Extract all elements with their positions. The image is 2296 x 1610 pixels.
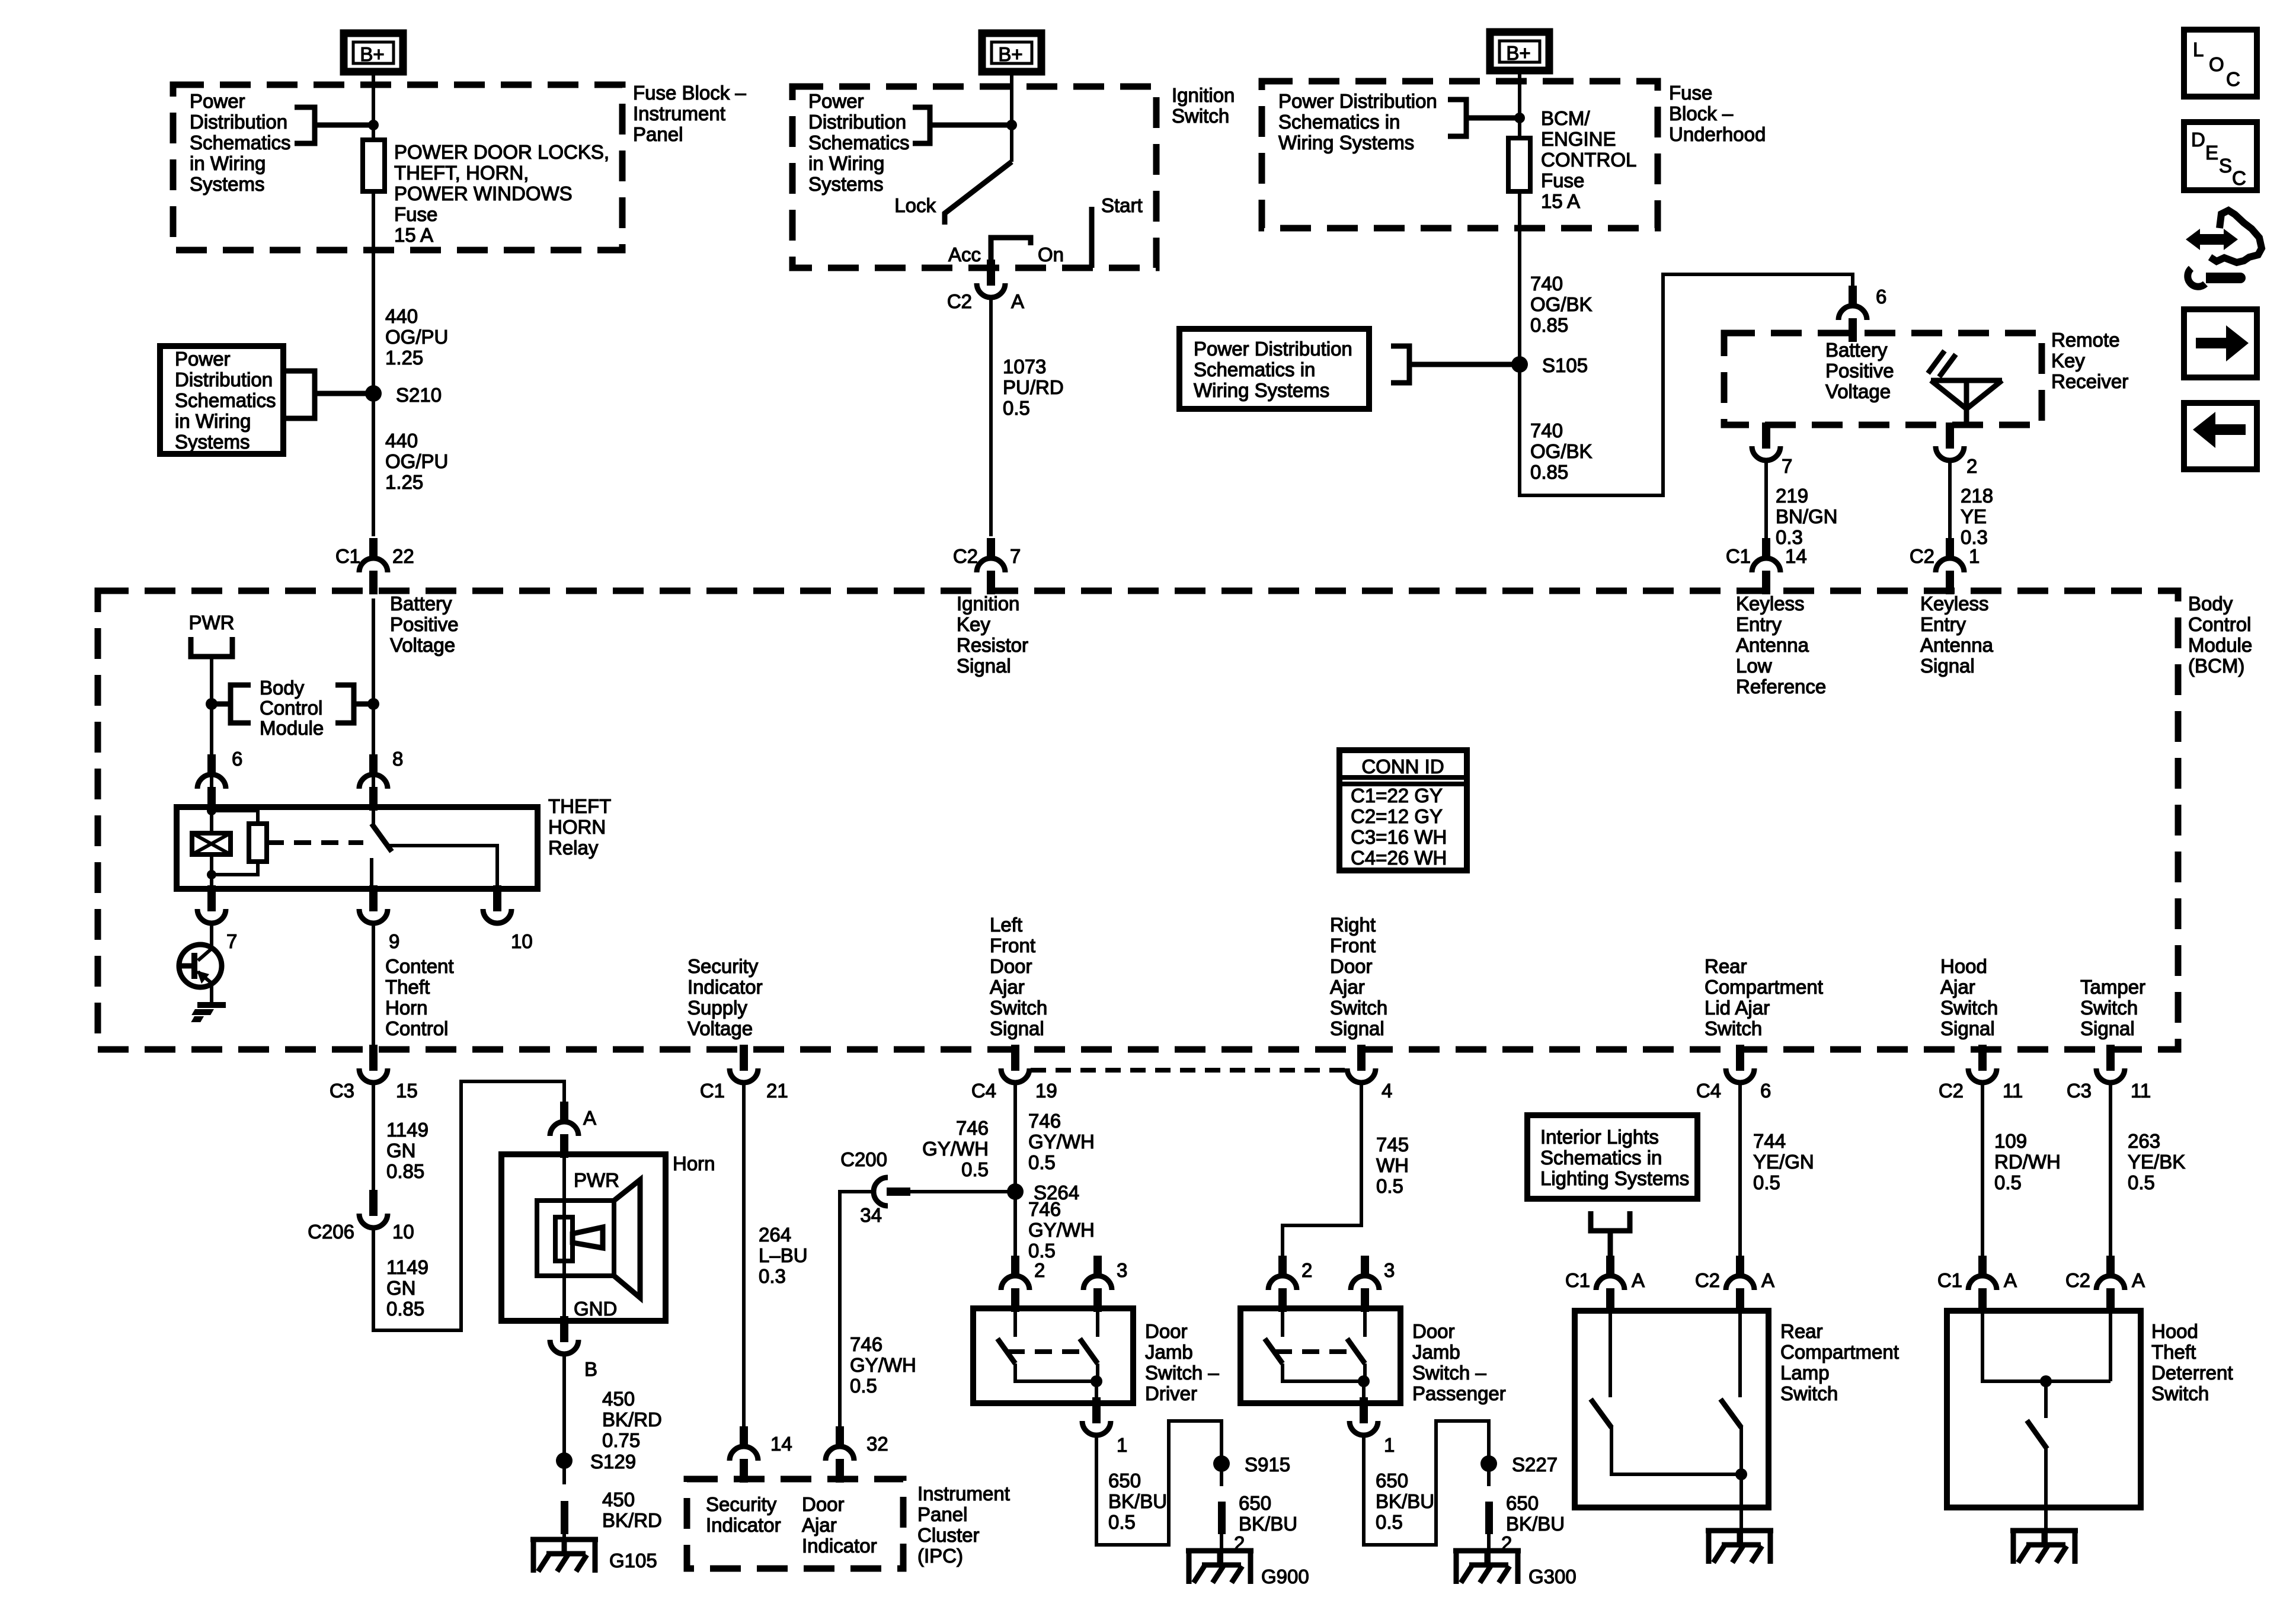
svg-text:GY/WH: GY/WH	[850, 1354, 916, 1376]
svg-text:Jamb: Jamb	[1412, 1341, 1460, 1363]
pin label Rear Compartment Lid Ajar Switch	[1705, 955, 1823, 1039]
svg-text:0.5: 0.5	[1753, 1172, 1780, 1193]
svg-text:Antenna: Antenna	[1736, 634, 1809, 656]
connector door jamb passenger pin 3	[1351, 1256, 1395, 1312]
svg-text:Voltage: Voltage	[390, 634, 455, 656]
bracket to note (S105)	[1391, 346, 1520, 383]
svg-text:Systems: Systems	[808, 173, 884, 195]
svg-text:740: 740	[1530, 420, 1563, 441]
svg-text:Signal: Signal	[2080, 1017, 2135, 1039]
svg-text:1.25: 1.25	[385, 471, 423, 493]
svg-text:Power: Power	[175, 348, 231, 370]
svg-text:Schematics in: Schematics in	[1194, 359, 1315, 380]
svg-text:C3=16 WH: C3=16 WH	[1351, 826, 1447, 848]
svg-text:Positive: Positive	[390, 613, 459, 635]
switch hood theft deterrent box	[1947, 1311, 2141, 1507]
wire relay pin9 to BCM edge	[372, 923, 375, 1049]
wire horn B to S129	[562, 1354, 566, 1461]
svg-text:450: 450	[602, 1388, 635, 1410]
svg-text:Door: Door	[1145, 1320, 1188, 1342]
svg-text:Switch: Switch	[1172, 105, 1229, 127]
node relay coil bottom	[207, 870, 216, 879]
svg-text:(IPC): (IPC)	[917, 1545, 963, 1567]
svg-text:S210: S210	[396, 384, 442, 406]
label Body Control Module (BCM)	[2188, 593, 2252, 677]
svg-text:C3: C3	[330, 1080, 354, 1102]
svg-text:650: 650	[1239, 1492, 1271, 1514]
svg-text:Door: Door	[990, 955, 1032, 977]
svg-text:Key: Key	[2051, 350, 2085, 372]
node S264	[1007, 1182, 1079, 1204]
switch rear compartment lamp box	[1575, 1311, 1769, 1507]
connector door jamb driver pin 3	[1083, 1256, 1127, 1312]
svg-text:219: 219	[1776, 485, 1808, 507]
connector relay pin 8	[359, 748, 403, 811]
svg-text:OG/BK: OG/BK	[1530, 293, 1593, 315]
svg-text:Door: Door	[802, 1493, 845, 1515]
connector relay pin 10	[483, 885, 533, 952]
svg-text:Systems: Systems	[190, 173, 265, 195]
svg-text:6: 6	[1876, 286, 1886, 308]
svg-text:14: 14	[1785, 545, 1807, 567]
svg-text:A: A	[1011, 290, 1024, 312]
wire C4/19 to S264	[1013, 1083, 1017, 1256]
svg-text:G300: G300	[1528, 1566, 1576, 1587]
pin label Right Front Door Ajar Switch Signal	[1330, 914, 1387, 1039]
svg-text:Schematics in: Schematics in	[1278, 111, 1400, 133]
fuse block underhood dashed box	[1262, 81, 1658, 228]
fuse block instrument panel dashed box	[173, 85, 622, 250]
wire label 219 BN/GN 0.3	[1776, 485, 1838, 548]
svg-text:Security: Security	[706, 1493, 777, 1515]
svg-text:Signal: Signal	[1940, 1017, 1995, 1039]
svg-text:0.5: 0.5	[1376, 1511, 1403, 1533]
svg-text:3: 3	[1384, 1259, 1395, 1281]
svg-text:Interior Lights: Interior Lights	[1540, 1126, 1659, 1148]
svg-text:Entry: Entry	[1920, 613, 1966, 635]
svg-text:Ignition: Ignition	[1172, 84, 1235, 106]
wire fuse to S210	[372, 191, 375, 536]
svg-text:Keyless: Keyless	[1736, 593, 1805, 614]
label Fuse Block - Instrument Panel	[633, 82, 746, 145]
svg-text:Signal: Signal	[957, 655, 1011, 677]
svg-text:4: 4	[1382, 1080, 1392, 1102]
svg-text:7: 7	[1782, 455, 1792, 477]
label Ignition Switch	[1172, 84, 1235, 127]
svg-text:0.5: 0.5	[2128, 1172, 2155, 1193]
wire relay pin7 to transistor	[210, 923, 213, 948]
svg-text:Horn: Horn	[385, 997, 428, 1019]
svg-text:B+: B+	[998, 43, 1022, 65]
svg-text:Entry: Entry	[1736, 613, 1782, 635]
svg-text:Switch: Switch	[1940, 997, 1998, 1019]
note power distribution schematics (ignition)	[808, 90, 910, 195]
wire label 650 BK/BU 2 (passenger ground)	[1501, 1492, 1565, 1554]
connector C3 pin 11 at BCM bottom	[2067, 1045, 2151, 1102]
switch door jamb driver box	[973, 1308, 1133, 1403]
wire dashed relay actuator link	[267, 840, 363, 845]
pin label Tamper Switch Signal	[2080, 976, 2145, 1039]
svg-text:Antenna: Antenna	[1920, 634, 1994, 656]
connector lamp switch C1 pin A	[1565, 1256, 1645, 1312]
connector horn pin B	[550, 1316, 597, 1380]
node S227	[1480, 1454, 1558, 1475]
svg-text:Distribution: Distribution	[175, 369, 273, 391]
relay K1 THEFT HORN relay box	[177, 807, 538, 889]
node S210	[365, 384, 442, 406]
wire dashed S129 to G105	[562, 1461, 566, 1484]
icon DESC box	[2184, 122, 2257, 190]
connector hood switch C2 pin A	[2065, 1256, 2145, 1312]
svg-text:Positive: Positive	[1825, 360, 1894, 382]
svg-text:Hood: Hood	[1940, 955, 1987, 977]
svg-text:C2: C2	[1910, 545, 1934, 567]
svg-text:11: 11	[2131, 1080, 2151, 1102]
connector C2 pin 7 at BCM	[953, 538, 1021, 594]
svg-text:Fuse: Fuse	[1669, 82, 1712, 104]
wire label 440 OG/PU 1.25 (upper)	[385, 305, 448, 369]
svg-text:0.75: 0.75	[602, 1429, 640, 1451]
bracket to note (fuse block IP)	[295, 107, 373, 143]
svg-text:Theft: Theft	[385, 976, 430, 998]
ground G105	[530, 1534, 657, 1573]
svg-text:Battery: Battery	[1825, 339, 1888, 361]
module BCM dashed box	[98, 591, 2178, 1049]
svg-text:D: D	[2191, 129, 2205, 151]
node relay coil top	[207, 806, 216, 815]
connector relay pin 6	[197, 748, 242, 811]
wire receiver pin2 to BCM C2/1	[1948, 460, 1952, 538]
connector door jamb driver pin 2	[1001, 1256, 1045, 1312]
svg-text:Underhood: Underhood	[1669, 123, 1766, 145]
svg-text:Control: Control	[385, 1017, 448, 1039]
node ignition feed junction	[1006, 120, 1017, 130]
node junction PWR wire	[206, 698, 218, 710]
svg-text:Distribution: Distribution	[190, 111, 287, 133]
label Security Indicator (IPC)	[706, 1493, 781, 1536]
node door jamb driver common	[1091, 1375, 1102, 1387]
svg-text:S: S	[2219, 155, 2232, 177]
svg-text:Relay: Relay	[548, 837, 599, 859]
label fuse F1 value	[394, 141, 609, 246]
wire C206 to horn pin A	[373, 1081, 564, 1330]
pin label Keyless Entry Antenna Low Reference	[1736, 593, 1826, 697]
svg-text:11: 11	[2003, 1080, 2023, 1102]
svg-text:Content: Content	[385, 955, 454, 977]
svg-text:BK/BU: BK/BU	[1376, 1490, 1434, 1512]
svg-text:in Wiring: in Wiring	[175, 410, 251, 432]
svg-text:S129: S129	[590, 1451, 636, 1473]
svg-text:450: 450	[602, 1489, 635, 1510]
svg-text:Switch: Switch	[1780, 1382, 1838, 1404]
module IPC dashed box	[687, 1479, 903, 1569]
svg-text:Distribution: Distribution	[808, 111, 906, 133]
svg-text:Body: Body	[2188, 593, 2233, 614]
label Door Ajar Indicator (IPC)	[802, 1493, 877, 1557]
svg-text:Reference: Reference	[1736, 676, 1826, 697]
ground rear lamp switch	[1706, 1528, 1773, 1564]
note interior lights schematics box	[1527, 1115, 1697, 1199]
note power distribution schematics (underhood)	[1278, 90, 1437, 153]
svg-text:C4=26 WH: C4=26 WH	[1351, 847, 1447, 869]
connector C2 pin 11 at BCM bottom	[1939, 1045, 2023, 1102]
table CONN ID	[1339, 750, 1467, 870]
svg-text:34: 34	[860, 1204, 882, 1226]
connector C4 pin 6 at BCM bottom	[1696, 1045, 1771, 1102]
switch door jamb passenger box	[1240, 1308, 1400, 1403]
svg-text:0.5: 0.5	[1028, 1240, 1056, 1262]
svg-text:YE/GN: YE/GN	[1753, 1151, 1814, 1173]
wire PWR to relay coil	[210, 657, 213, 789]
label THEFT HORN Relay	[548, 795, 611, 859]
connector relay pin 9	[359, 885, 399, 952]
svg-text:440: 440	[385, 430, 418, 452]
wire horn internal	[562, 1154, 566, 1321]
svg-text:0.85: 0.85	[1530, 314, 1568, 336]
wire label 1073 PU/RD 0.5	[1003, 356, 1064, 419]
svg-text:650: 650	[1376, 1470, 1408, 1491]
svg-text:Start: Start	[1101, 194, 1143, 216]
svg-text:C3: C3	[2067, 1080, 2092, 1102]
wire B+1 to fuse block	[372, 75, 375, 140]
svg-text:Rear: Rear	[1780, 1320, 1823, 1342]
switch blade hood	[1982, 1311, 2110, 1531]
svg-text:Schematics: Schematics	[190, 132, 291, 153]
svg-text:19: 19	[1035, 1080, 1057, 1102]
svg-text:Lamp: Lamp	[1780, 1362, 1830, 1384]
wire label 264 L-BU 0.3	[759, 1224, 808, 1287]
relay coil K1	[192, 807, 231, 889]
svg-text:745: 745	[1376, 1134, 1409, 1156]
svg-text:B: B	[584, 1358, 597, 1380]
svg-text:3: 3	[1117, 1259, 1127, 1281]
svg-text:0.3: 0.3	[759, 1265, 786, 1287]
node rear lamp common	[1735, 1468, 1747, 1480]
svg-text:C1=22 GY: C1=22 GY	[1351, 785, 1443, 806]
svg-text:YE/BK: YE/BK	[2128, 1151, 2185, 1173]
switch blades door jamb passenger	[1265, 1308, 1365, 1404]
svg-text:Module: Module	[260, 717, 324, 739]
node S915	[1213, 1454, 1290, 1475]
svg-text:C206: C206	[308, 1221, 354, 1243]
wire label 650 BK/BU 2 (driver ground)	[1234, 1492, 1297, 1554]
svg-text:C2: C2	[2065, 1269, 2090, 1291]
svg-text:Security: Security	[687, 955, 759, 977]
svg-text:740: 740	[1530, 273, 1563, 295]
svg-text:Ajar: Ajar	[802, 1514, 837, 1536]
wire label 450 BK/RD 0.75	[602, 1388, 662, 1451]
svg-text:S227: S227	[1512, 1454, 1558, 1475]
label Battery Positive Voltage (receiver)	[1825, 339, 1894, 402]
wire label 1149 GN 0.85 (upper)	[386, 1119, 428, 1182]
svg-text:in Wiring: in Wiring	[808, 152, 884, 174]
svg-text:Switch: Switch	[2151, 1382, 2209, 1404]
svg-text:C4: C4	[971, 1080, 996, 1102]
wire label 650 BK/BU 0.5 (driver)	[1108, 1470, 1167, 1533]
pin label Ignition Key Resistor Signal	[957, 593, 1028, 677]
note power distribution schematics box (solid, S210)	[160, 346, 283, 454]
switch blades door jamb driver	[997, 1308, 1098, 1404]
connector C206 pin 10	[308, 1190, 414, 1243]
svg-text:0.5: 0.5	[1108, 1511, 1136, 1533]
svg-text:B+: B+	[360, 43, 384, 65]
connector door jamb passenger pin 1	[1350, 1397, 1395, 1456]
pin label Security Indicator Supply Voltage	[687, 955, 763, 1039]
ground G900	[1186, 1534, 1309, 1587]
svg-text:CONN ID: CONN ID	[1361, 756, 1444, 777]
svg-text:Control: Control	[2188, 613, 2251, 635]
connector pin 4 at BCM bottom	[1347, 1045, 1392, 1102]
svg-text:7: 7	[1010, 545, 1021, 567]
svg-text:Resistor: Resistor	[957, 634, 1028, 656]
wire label 740 OG/BK 0.85 (lower)	[1530, 420, 1593, 483]
label Hood Theft Deterrent Switch	[2151, 1320, 2233, 1404]
label Rear Compartment Lamp Switch	[1780, 1320, 1899, 1404]
connector IPC pin 32	[826, 1426, 888, 1483]
svg-text:1149: 1149	[386, 1256, 428, 1278]
wire label 218 YE 0.3	[1961, 485, 1993, 548]
svg-text:Power Distribution: Power Distribution	[1194, 338, 1352, 360]
bracket right (BCM internal label)	[335, 685, 373, 723]
remote key receiver dashed box	[1724, 333, 2042, 425]
svg-text:6: 6	[1760, 1080, 1771, 1102]
wire label 746 GY/WH 0.5 (IPC wire)	[850, 1333, 916, 1397]
svg-text:10: 10	[392, 1221, 414, 1243]
svg-text:A: A	[2132, 1269, 2145, 1291]
svg-text:C1: C1	[1726, 545, 1751, 567]
svg-text:PWR: PWR	[574, 1169, 619, 1191]
svg-text:WH: WH	[1376, 1154, 1409, 1176]
svg-text:A: A	[1761, 1269, 1774, 1291]
note power distribution schematics (fuse block IP)	[190, 90, 291, 195]
label Door Jamb Switch - Passenger	[1412, 1320, 1506, 1404]
svg-text:Driver: Driver	[1145, 1382, 1197, 1404]
node junction at fuse top	[368, 120, 379, 130]
connector C2 pin 1 at BCM	[1910, 538, 1980, 594]
svg-text:650: 650	[1506, 1492, 1539, 1514]
svg-text:9: 9	[389, 930, 399, 952]
wire fuse F2 to S105	[1518, 191, 1521, 364]
svg-text:Voltage: Voltage	[1825, 380, 1891, 402]
wire label 440 OG/PU 1.25 (lower)	[385, 430, 448, 493]
svg-text:L: L	[2193, 39, 2204, 60]
svg-text:0.5: 0.5	[1994, 1172, 2022, 1193]
icon arrow left box	[2184, 403, 2257, 469]
connector C2 pin A (ignition output)	[947, 260, 1024, 312]
ignition switch dashed box	[792, 87, 1156, 268]
svg-text:Panel: Panel	[633, 123, 683, 145]
svg-text:Fuse Block –: Fuse Block –	[633, 82, 746, 104]
wire dashed S915 to G900	[1220, 1464, 1223, 1486]
svg-text:746: 746	[850, 1333, 882, 1355]
svg-text:Lock: Lock	[894, 194, 936, 216]
fuse F2 BCM/ENGINE CONTROL 15A	[1508, 138, 1530, 191]
svg-text:6: 6	[232, 748, 242, 770]
svg-text:Key: Key	[957, 613, 990, 635]
svg-text:Fuse: Fuse	[1541, 169, 1584, 191]
connector relay pin 7	[197, 885, 237, 952]
svg-text:Switch: Switch	[1705, 1017, 1762, 1039]
svg-text:Instrument: Instrument	[917, 1483, 1010, 1505]
svg-text:Compartment: Compartment	[1780, 1341, 1899, 1363]
svg-text:C2: C2	[1695, 1269, 1720, 1291]
connector C1 pin 21 at BCM bottom	[700, 1045, 788, 1102]
svg-text:Switch –: Switch –	[1412, 1362, 1486, 1384]
svg-text:Front: Front	[1330, 934, 1376, 956]
svg-text:GND: GND	[574, 1298, 617, 1320]
svg-text:GY/WH: GY/WH	[922, 1138, 989, 1160]
svg-text:HORN: HORN	[548, 816, 606, 838]
svg-text:THEFT: THEFT	[548, 795, 611, 817]
svg-text:G900: G900	[1261, 1566, 1309, 1587]
svg-text:Instrument: Instrument	[633, 103, 725, 124]
svg-text:0.5: 0.5	[961, 1158, 989, 1180]
resistor relay parallel	[212, 811, 267, 875]
svg-text:1.25: 1.25	[385, 347, 423, 369]
wire transistor emitter to ground	[210, 984, 213, 1004]
svg-text:440: 440	[385, 305, 418, 327]
svg-text:GY/WH: GY/WH	[1028, 1131, 1095, 1153]
svg-text:Power Distribution: Power Distribution	[1278, 90, 1437, 112]
ground internal BCM (transistor)	[189, 1005, 226, 1019]
svg-text:POWER DOOR LOCKS,: POWER DOOR LOCKS,	[394, 141, 609, 163]
svg-text:Signal: Signal	[1330, 1017, 1384, 1039]
svg-text:C2: C2	[953, 545, 978, 567]
svg-text:C200: C200	[840, 1148, 887, 1170]
connector pin 6 remote key receiver	[1838, 286, 1886, 342]
bracket interior lights note	[1591, 1211, 1630, 1256]
svg-text:POWER WINDOWS: POWER WINDOWS	[394, 183, 573, 204]
power symbol B+ (underhood feed)	[1490, 32, 1549, 71]
ground G300	[1453, 1534, 1576, 1587]
wire label 745 WH 0.5	[1376, 1134, 1409, 1197]
svg-text:Fuse: Fuse	[394, 203, 437, 225]
svg-text:C1: C1	[335, 545, 360, 567]
svg-text:C1: C1	[1937, 1269, 1962, 1291]
svg-text:744: 744	[1753, 1130, 1786, 1152]
svg-text:21: 21	[766, 1080, 788, 1102]
svg-text:E: E	[2205, 142, 2218, 164]
svg-text:BK/RD: BK/RD	[602, 1409, 662, 1430]
connector C1 pin 22 at BCM	[335, 538, 414, 594]
svg-text:C: C	[2232, 167, 2246, 189]
svg-text:15 A: 15 A	[1541, 190, 1580, 212]
svg-text:264: 264	[759, 1224, 791, 1246]
svg-text:746: 746	[956, 1117, 989, 1139]
wire label 650 BK/BU 0.5 (passenger)	[1376, 1470, 1434, 1533]
wire door jamb driver to S915	[1096, 1421, 1221, 1545]
svg-text:(BCM): (BCM)	[2188, 655, 2244, 677]
svg-text:Passenger: Passenger	[1412, 1382, 1506, 1404]
pin label Battery Positive Voltage	[390, 593, 459, 656]
svg-text:O: O	[2209, 53, 2224, 75]
svg-text:ENGINE: ENGINE	[1541, 128, 1616, 150]
svg-text:Schematics in: Schematics in	[1540, 1147, 1662, 1169]
svg-text:Right: Right	[1330, 914, 1376, 936]
svg-text:Low: Low	[1736, 655, 1772, 677]
svg-text:0.5: 0.5	[1376, 1175, 1403, 1197]
svg-text:1: 1	[1117, 1434, 1127, 1456]
svg-text:746: 746	[1028, 1198, 1061, 1220]
svg-text:Ajar: Ajar	[990, 976, 1025, 998]
wire label 746 GY/WH 0.5 (below S264)	[1028, 1198, 1095, 1262]
svg-text:GY/WH: GY/WH	[1028, 1219, 1095, 1241]
svg-text:Wiring Systems: Wiring Systems	[1194, 379, 1329, 401]
component horn box	[501, 1154, 666, 1321]
contact Acc with On tick	[991, 238, 1031, 268]
wire ignition to BCM	[989, 297, 993, 536]
label Door Jamb Switch - Driver	[1145, 1320, 1219, 1404]
